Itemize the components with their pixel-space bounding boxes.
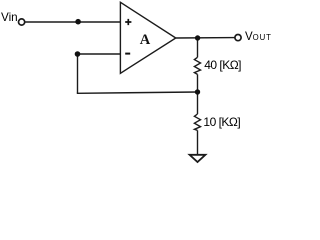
- wire Vin to op-amp + input: [25, 21, 120, 23]
- resistor R1 40K zigzag: [194, 57, 200, 74]
- label Vout: [245, 31, 272, 43]
- wire R2 to ground: [197, 130, 199, 154]
- wire R1 to mid node: [197, 74, 199, 92]
- node dot between resistors: [195, 89, 200, 94]
- output terminal Vout: [235, 35, 241, 41]
- wire feedback vertical: [77, 54, 79, 93]
- wire - input to feedback node: [78, 53, 121, 55]
- resistor R2 10K zigzag: [194, 114, 200, 130]
- input terminal Vin: [19, 19, 25, 25]
- label Vin: [1, 11, 18, 24]
- node dot inverting input: [75, 51, 81, 57]
- wire op-amp output: [176, 37, 235, 39]
- op-amp U1 triangle: [120, 2, 175, 73]
- node dot on Vin line: [75, 19, 81, 25]
- wire feedback bottom rail: [77, 92, 198, 93]
- label 10 KOhm: [203, 115, 240, 129]
- op-amp minus sign: [125, 53, 130, 55]
- op-amp gain label A: [140, 32, 150, 49]
- wire mid node down to R2: [197, 92, 199, 114]
- ground: [190, 155, 206, 162]
- label 40 KOhm: [204, 58, 241, 72]
- node dot output: [195, 35, 200, 40]
- op-amp plus sign: [125, 19, 131, 25]
- wire output node down to R1: [197, 38, 199, 57]
